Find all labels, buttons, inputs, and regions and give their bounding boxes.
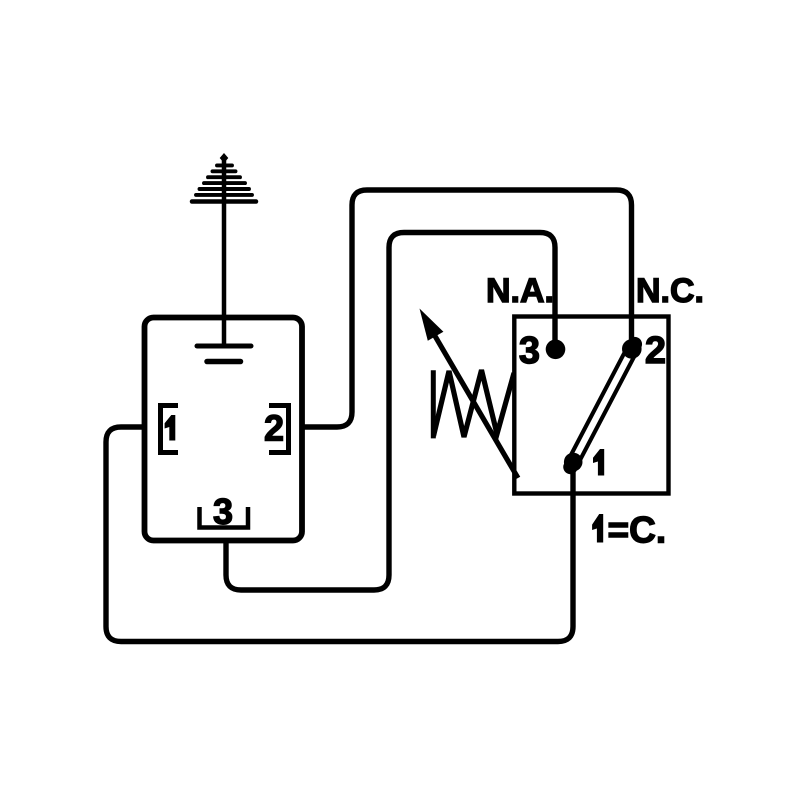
pin label 1: [165, 415, 176, 441]
antenna cone bars: [192, 165, 256, 201]
terminal bracket 3: [200, 507, 249, 528]
wire pin1 to switch contact 1: [106, 427, 573, 642]
svg-text:=C.: =C.: [608, 510, 667, 551]
wire pin3 to switch contact 3: [226, 233, 555, 591]
switch lever core: [577, 357, 629, 456]
switch contact 1 dot: [564, 453, 583, 472]
svg-text:3: 3: [519, 330, 540, 372]
switch box: [514, 317, 668, 494]
terminal bracket 1: [161, 406, 179, 453]
switch contact 3 dot: [546, 340, 566, 360]
svg-text:2: 2: [645, 330, 666, 372]
svg-text:N.A.: N.A.: [486, 272, 554, 310]
terminal bracket 2: [269, 406, 289, 453]
svg-text:3: 3: [213, 491, 233, 532]
switch lever outline: [571, 344, 635, 467]
antenna tip: [220, 153, 229, 163]
connector block body: [145, 318, 303, 541]
svg-text:2: 2: [264, 408, 284, 449]
wire pin2 to switch contact 2: [302, 190, 632, 427]
switch contact 2 dot: [622, 339, 642, 359]
label 1=C. digit 1: [592, 514, 603, 543]
potentiometer zigzag resistor: [434, 370, 515, 437]
wire antenna stem: [222, 157, 227, 344]
svg-text:N.C.: N.C.: [636, 272, 704, 310]
ground symbol: [197, 346, 251, 362]
switch contact label 1: [593, 449, 604, 476]
potentiometer wiper arrow shaft: [432, 330, 519, 478]
potentiometer left end bar: [431, 370, 436, 438]
potentiometer wiper arrowhead: [420, 309, 444, 341]
